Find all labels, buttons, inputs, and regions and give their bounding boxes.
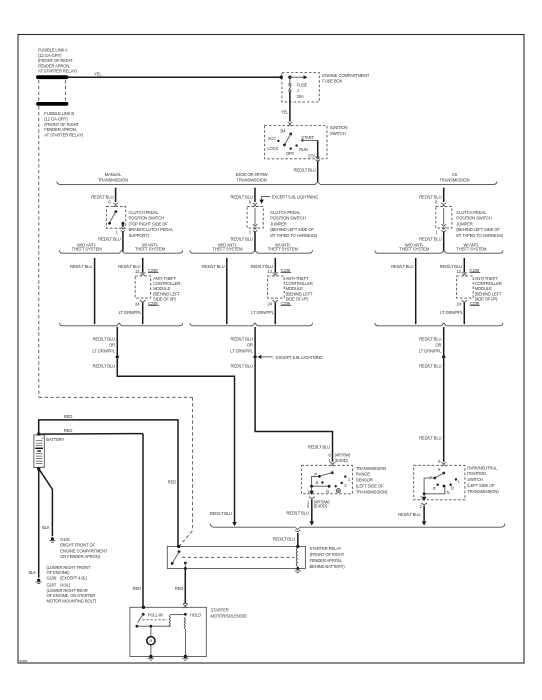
clutch pedal position switch jumper e4od: [247, 207, 263, 229]
svg-text:LT GRN/PPL: LT GRN/PPL: [230, 349, 253, 354]
anti-theft controller module e4od: [268, 276, 285, 298]
svg-text:I/P, TAPED TO HARNESS): I/P, TAPED TO HARNESS): [456, 233, 504, 238]
svg-text:(TOP RIGHT SIDE OF: (TOP RIGHT SIDE OF: [129, 221, 169, 226]
node splice e4od output: [253, 355, 256, 358]
connector at clutch jumper c6: [442, 203, 446, 204]
svg-text:J: J: [297, 88, 299, 93]
svg-text:OF ENGINE): OF ENGINE): [47, 570, 71, 575]
svg-text:RANGE: RANGE: [356, 472, 370, 477]
wire RED/LT BLU range sensor to bus: [311, 499, 313, 521]
svg-text:STARTER RELAY: STARTER RELAY: [310, 546, 342, 551]
svg-text:RED/LT BLU: RED/LT BLU: [419, 364, 441, 369]
wire START to STA terminal: [302, 139, 317, 141]
svg-text:RED/LT BLU: RED/LT BLU: [398, 512, 420, 517]
svg-text:OF ENGINE, ON STARTER: OF ENGINE, ON STARTER: [47, 593, 96, 598]
wire RED/LT BLU bus to starter relay coil: [297, 533, 299, 546]
svg-text:M: M: [150, 639, 153, 643]
svg-text:PARK/NEUTRAL: PARK/NEUTRAL: [467, 465, 498, 470]
svg-text:ON FENDER APRON): ON FENDER APRON): [60, 554, 100, 559]
svg-text:(LOWER RIGHT FRONT: (LOWER RIGHT FRONT: [47, 565, 91, 570]
merge bus line to starter relay: [210, 524, 295, 528]
svg-text:POSITION SWITCH: POSITION SWITCH: [456, 216, 492, 221]
svg-text:BLK: BLK: [29, 570, 37, 575]
wire RED/LT BLU from STA to transmission option bracket: [317, 161, 319, 182]
svg-text:N: N: [326, 489, 329, 494]
ignition switch connector at top: [288, 122, 292, 123]
svg-text:RED/LT BLU: RED/LT BLU: [419, 436, 441, 441]
svg-text:RED/LT BLU: RED/LT BLU: [293, 168, 315, 173]
svg-text:FENDER APRON,: FENDER APRON,: [310, 558, 342, 563]
wire LT GRN/PPL anti-theft manual: [142, 303, 144, 325]
svg-text:R: R: [433, 486, 436, 491]
ground at starter solenoid hold winding: [184, 655, 187, 658]
svg-text:TRANSMISSION: TRANSMISSION: [237, 177, 267, 182]
svg-text:BATTERY: BATTERY: [46, 437, 64, 442]
svg-text:2: 2: [420, 495, 422, 499]
svg-text:(RIGHT FRONT OF: (RIGHT FRONT OF: [60, 543, 95, 548]
svg-text:LOCK: LOCK: [267, 146, 278, 151]
svg-text:LT GRN/PPL: LT GRN/PPL: [119, 310, 142, 315]
wire bus arrow inside fuse box: [290, 76, 304, 78]
pin 1 (4R70W) 8 (E4OD) transmission range sensor bottom: [311, 487, 313, 491]
svg-text:N: N: [447, 490, 450, 495]
svg-text:THEFT SYSTEM: THEFT SYSTEM: [456, 247, 487, 252]
battery: [34, 435, 44, 468]
node junction at solenoid switch input: [142, 606, 145, 609]
transmission options bracket: [57, 181, 497, 184]
svg-text:PULL-IN: PULL-IN: [148, 612, 163, 617]
ignition switch position RUN: [295, 144, 297, 146]
svg-text:R: R: [316, 481, 319, 486]
svg-text:SWITCH: SWITCH: [467, 477, 483, 482]
position D transmission range sensor: [335, 485, 337, 487]
wire switch contact to motor: [137, 625, 171, 627]
svg-text:STA: STA: [308, 153, 316, 158]
svg-text:(E4OD): (E4OD): [335, 458, 349, 463]
svg-text:OFF: OFF: [286, 151, 295, 156]
svg-text:IGNITION: IGNITION: [330, 125, 348, 130]
wire RED/LT BLU OR LT GRN/PPL manual output: [116, 327, 118, 355]
svg-text:AT STARTER RELAY): AT STARTER RELAY): [44, 132, 83, 137]
svg-text:ENGINE COMPARTMENT: ENGINE COMPARTMENT: [60, 548, 108, 553]
ground at starter motor: [149, 655, 152, 658]
svg-text:(FRONT OF RIGHT: (FRONT OF RIGHT: [44, 122, 79, 127]
connector at park/neutral switch top: [442, 462, 446, 463]
svg-text:OR: OR: [435, 343, 441, 348]
ignition switch box: [264, 126, 327, 159]
wire RED/LT BLU w/ anti-theft manual: [142, 258, 144, 272]
position 1 transmission range sensor: [344, 475, 346, 477]
svg-text:RED/LT BLU: RED/LT BLU: [419, 337, 441, 342]
ignition switch position START: [301, 139, 303, 141]
svg-text:YEL: YEL: [281, 110, 289, 115]
position 2 transmission range sensor: [341, 482, 343, 484]
wire dashed links between fusible link A and B: [38, 80, 40, 102]
svg-text:RED/LT BLU: RED/LT BLU: [210, 511, 232, 516]
wire RED/LT BLU w/o anti-theft c6: [415, 258, 417, 324]
svg-text:AT STARTER RELAY): AT STARTER RELAY): [38, 69, 77, 74]
svg-text:BRAKE/CLUTCH PEDAL: BRAKE/CLUTCH PEDAL: [129, 227, 174, 232]
svg-text:TRANSMISSION: TRANSMISSION: [98, 177, 128, 182]
node junction at battery negative: [37, 467, 40, 470]
starter solenoid switch: [142, 613, 145, 616]
svg-text:FENDER APRON,: FENDER APRON,: [44, 127, 76, 132]
svg-text:G109: G109: [47, 576, 57, 581]
clutch pedal position switch: [106, 207, 125, 229]
svg-text:(12 GA-GRY): (12 GA-GRY): [38, 53, 62, 58]
svg-text:FUSIBLE LINK A: FUSIBLE LINK A: [38, 48, 68, 53]
svg-text:FUSIBLE LINK B: FUSIBLE LINK B: [44, 111, 74, 116]
svg-text:(BEHIND LEFT SIDE OF: (BEHIND LEFT SIDE OF: [270, 227, 314, 232]
svg-text:THEFT SYSTEM: THEFT SYSTEM: [268, 247, 299, 252]
svg-text:(LOWER RIGHT REAR: (LOWER RIGHT REAR: [47, 588, 88, 593]
pin 1 clutch jumper c6: [442, 227, 446, 229]
svg-text:OR: OR: [109, 343, 115, 348]
wire LT GRN/PPL anti-theft c6: [463, 303, 465, 325]
svg-text:91658: 91658: [20, 659, 28, 663]
svg-text:BLK: BLK: [42, 525, 50, 530]
svg-text:OR: OR: [247, 343, 253, 348]
wire RED/LT BLU w/o anti-theft manual: [94, 258, 96, 324]
transmission range sensor: [302, 465, 353, 494]
fusible link B: [38, 102, 67, 106]
wire RED/LT BLU w/ anti-theft c6: [463, 258, 465, 272]
svg-text:RED/LT BLU: RED/LT BLU: [93, 364, 115, 369]
wire RED/LT BLU w/o anti-theft e4od: [226, 258, 228, 324]
svg-text:RED/LT BLU: RED/LT BLU: [70, 264, 92, 269]
svg-text:LT GRN/PPL: LT GRN/PPL: [440, 310, 463, 315]
svg-text:CLUTCH PEDAL: CLUTCH PEDAL: [456, 210, 487, 215]
svg-text:LT GRN/PPL: LT GRN/PPL: [92, 349, 115, 354]
svg-text:CLUTCH PEDAL: CLUTCH PEDAL: [129, 210, 160, 215]
starter relay box: [167, 546, 305, 568]
svg-text:(FRONT OF RIGHT: (FRONT OF RIGHT: [38, 58, 73, 63]
svg-text:(EXCEPT 4.9L): (EXCEPT 4.9L): [60, 576, 88, 581]
svg-text:TRANSMISSION: TRANSMISSION: [439, 177, 469, 182]
svg-text:CLUTCH PEDAL: CLUTCH PEDAL: [270, 210, 301, 215]
starter solenoid pull-in winding: [169, 615, 170, 627]
pin 2 park/neutral switch bottom: [423, 495, 425, 498]
svg-text:(FRONT OF RIGHT: (FRONT OF RIGHT: [310, 552, 345, 557]
svg-text:EXCEPT 5.8L LIGHTNING: EXCEPT 5.8L LIGHTNING: [272, 195, 319, 200]
ignition switch connector STA at bottom: [316, 157, 320, 159]
park/neutral position switch: [414, 465, 465, 500]
wire LT GRN/PPL anti-theft e4od: [274, 303, 276, 325]
anti-theft option bracket manual: [59, 250, 182, 253]
svg-text:SENSOR: SENSOR: [356, 478, 373, 483]
wire RED/LT BLU park/neutral switch to bus: [423, 506, 425, 522]
svg-text:RED/LT BLU: RED/LT BLU: [93, 337, 115, 342]
node splice manual output: [116, 355, 119, 358]
svg-text:FENDER APRON,: FENDER APRON,: [38, 63, 70, 68]
wire RED/LT BLU w/ anti-theft e4od: [274, 258, 276, 272]
node splice c6 output: [442, 355, 445, 358]
svg-text:LT GRN/PPL: LT GRN/PPL: [419, 349, 442, 354]
starter motor/solenoid box: [130, 607, 206, 656]
starter solenoid mechanical dashed link: [143, 619, 168, 621]
svg-text:20A: 20A: [297, 94, 304, 99]
svg-text:JUMPER: JUMPER: [456, 221, 472, 226]
svg-text:RED/LT BLU: RED/LT BLU: [286, 510, 308, 515]
wire dashed from fusible link B to starter relay: [38, 106, 40, 397]
svg-text:HOLD: HOLD: [190, 612, 201, 617]
svg-text:(LEFT SIDE OF: (LEFT SIDE OF: [467, 483, 495, 488]
svg-text:POSITION: POSITION: [467, 471, 486, 476]
anti-theft option bracket c6: [375, 250, 503, 253]
wire RED/LT BLU below clutch jumper e4od: [254, 232, 256, 252]
wire YEL from fuse to ignition switch: [289, 92, 291, 122]
svg-text:POSITION SWITCH: POSITION SWITCH: [129, 216, 165, 221]
anti-theft controller module c6: [457, 276, 474, 298]
svg-text:RED/LT BLU: RED/LT BLU: [308, 445, 330, 450]
svg-text:ENGINE COMPARTMENT: ENGINE COMPARTMENT: [322, 73, 370, 78]
node junction at battery positive: [37, 432, 40, 435]
svg-text:TRANSMISSION): TRANSMISSION): [467, 489, 499, 494]
wire BLK battery to ground G109/G107: [38, 469, 40, 578]
svg-text:POSITION SWITCH: POSITION SWITCH: [270, 216, 306, 221]
wire RED/LT BLU branch c6: [443, 188, 445, 202]
ground G101: [51, 537, 54, 540]
starter motor M: [150, 626, 152, 636]
ignition switch position OFF: [290, 147, 292, 149]
svg-text:RED/LT BLU: RED/LT BLU: [419, 236, 441, 241]
connector at bus output: [295, 527, 299, 529]
svg-text:RED/LT BLU: RED/LT BLU: [91, 194, 113, 199]
svg-text:RED/LT BLU: RED/LT BLU: [273, 536, 295, 541]
anti-theft controller module manual: [135, 276, 151, 298]
svg-text:RED: RED: [64, 428, 73, 433]
svg-text:TRANSMISSION: TRANSMISSION: [356, 466, 386, 471]
ground G109 G107: [37, 579, 40, 582]
svg-text:START: START: [301, 135, 314, 140]
node junction YEL at fuse box entry: [280, 76, 283, 79]
wire RED battery to starter relay: [39, 420, 178, 547]
svg-text:RED/LT BLU: RED/LT BLU: [391, 264, 413, 269]
svg-text:RED/LT BLU: RED/LT BLU: [230, 194, 252, 199]
starter relay switch: [178, 550, 181, 553]
wire RED/LT BLU branch manual: [115, 188, 117, 202]
svg-text:FUSE BOX: FUSE BOX: [322, 78, 342, 83]
connector at transmission range sensor top: [330, 462, 334, 463]
svg-text:(4.9L): (4.9L): [60, 583, 71, 588]
callout EXCEPT 5.8L LIGHTNING at splice: [257, 355, 261, 359]
svg-text:BEHIND BATTERY): BEHIND BATTERY): [310, 564, 346, 569]
fusible link A: [38, 75, 67, 79]
wire RED battery to starter motor: [39, 433, 143, 436]
merge bracket e4od: [190, 323, 313, 326]
fuse J 20A: [289, 77, 291, 83]
svg-text:(12 GA-GRY): (12 GA-GRY): [44, 117, 68, 122]
svg-text:(LEFT SIDE OF: (LEFT SIDE OF: [356, 484, 384, 489]
svg-text:G101: G101: [60, 537, 70, 542]
svg-text:1: 1: [308, 490, 310, 494]
merge bracket manual: [59, 323, 182, 326]
merge bracket c6: [375, 323, 503, 326]
svg-text:FUSE: FUSE: [297, 83, 308, 88]
node junction at starter relay input: [177, 545, 180, 548]
svg-text:RED/LT BLU: RED/LT BLU: [98, 236, 120, 241]
anti-theft option bracket e4od: [190, 250, 313, 253]
svg-text:TRANSMISSION): TRANSMISSION): [356, 489, 388, 494]
wire BLK battery to ground G101: [39, 469, 53, 537]
svg-text:EXCEPT 5.8L LIGHTNING: EXCEPT 5.8L LIGHTNING: [276, 355, 323, 360]
svg-text:D: D: [451, 485, 454, 490]
svg-text:THEFT SYSTEM: THEFT SYSTEM: [399, 247, 430, 252]
clutch pedal position switch jumper c6: [436, 207, 452, 229]
svg-text:RED: RED: [175, 586, 184, 591]
svg-text:THEFT SYSTEM: THEFT SYSTEM: [212, 247, 243, 252]
connector at clutch jumper e4od: [253, 203, 257, 204]
svg-text:RED: RED: [133, 586, 142, 591]
wire RED/LT BLU below clutch switch: [122, 232, 124, 252]
svg-text:G107: G107: [47, 583, 57, 588]
pin 1 clutch pedal position switch: [121, 227, 125, 229]
wire YEL from fusible link A to fuse box: [67, 76, 282, 78]
svg-text:JUMPER: JUMPER: [270, 221, 286, 226]
svg-text:(BEHIND LEFT SIDE OF: (BEHIND LEFT SIDE OF: [456, 227, 500, 232]
engine compartment fuse box: [282, 73, 319, 102]
svg-text:RED: RED: [64, 414, 73, 419]
svg-text:B4: B4: [280, 128, 286, 133]
svg-text:(E4OD): (E4OD): [314, 504, 328, 509]
svg-text:RED/LT BLU: RED/LT BLU: [202, 264, 224, 269]
svg-text:RED: RED: [168, 480, 177, 485]
svg-text:YEL: YEL: [94, 72, 102, 77]
starter solenoid hold winding: [184, 613, 187, 616]
ignition switch position ACC: [277, 140, 279, 142]
svg-text:RED/LT BLU: RED/LT BLU: [230, 236, 252, 241]
starter relay coil: [296, 545, 299, 548]
wire RED/LT BLU OR LT GRN/PPL c6 output: [443, 327, 445, 355]
wire RED starter relay to starter motor solenoid: [184, 570, 186, 603]
ignition switch position LOCK: [283, 144, 286, 147]
starter relay actuation dashed link: [182, 556, 295, 558]
wire RED/LT BLU below clutch jumper c6: [443, 232, 445, 252]
svg-text:MOTOR MOUNTING BOLT): MOTOR MOUNTING BOLT): [47, 599, 97, 604]
svg-text:SUPPORT): SUPPORT): [129, 233, 150, 238]
pin 1 clutch jumper e4od: [253, 227, 257, 229]
svg-text:LT GRN/PPL: LT GRN/PPL: [251, 310, 274, 315]
svg-text:THEFT SYSTEM: THEFT SYSTEM: [72, 247, 103, 252]
svg-text:MOTOR/SOLENOID: MOTOR/SOLENOID: [211, 613, 247, 618]
svg-text:SWITCH: SWITCH: [330, 131, 346, 136]
ground at starter relay coil: [295, 570, 301, 572]
svg-text:RED/LT BLU: RED/LT BLU: [419, 194, 441, 199]
svg-text:ACC: ACC: [268, 136, 277, 141]
svg-text:STARTER: STARTER: [211, 607, 229, 612]
svg-text:RED/LT BLU: RED/LT BLU: [230, 364, 252, 369]
svg-text:RUN: RUN: [299, 147, 308, 152]
wire RED/LT BLU branch e4od: [254, 188, 256, 202]
svg-text:I/P, TAPED TO HARNESS): I/P, TAPED TO HARNESS): [270, 233, 318, 238]
wire RED/LT BLU OR LT GRN/PPL e4od output: [254, 327, 256, 355]
svg-text:THEFT SYSTEM: THEFT SYSTEM: [135, 247, 166, 252]
svg-text:RED/LT BLU: RED/LT BLU: [230, 337, 252, 342]
connector at clutch pedal position switch: [113, 203, 117, 204]
